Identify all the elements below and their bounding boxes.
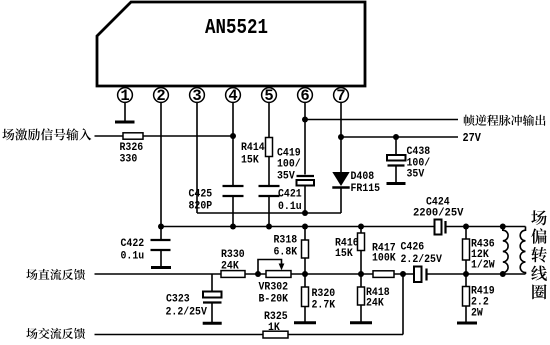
node R417/C426 (400, 271, 406, 277)
node R318/R320 (302, 271, 308, 277)
node bus R318 (302, 224, 308, 230)
wire pin7 top (340, 102, 342, 172)
wire R326 to pin4 (143, 135, 233, 137)
capacitor C425 plates (223, 185, 244, 187)
wire R416 top (360, 227, 362, 234)
pin 3 (190, 87, 205, 105)
wire pin3 down (196, 102, 198, 213)
svg-text:24K: 24K (221, 260, 239, 273)
wire AC feedback up (402, 274, 404, 335)
coil winding 2 (520, 227, 525, 275)
label field DC feedback (CJK) (26, 269, 85, 280)
wire C438 top (395, 137, 397, 155)
svg-text:R414: R414 (241, 142, 265, 155)
wire C422 top (160, 227, 162, 240)
svg-text:1K: 1K (268, 322, 281, 335)
wire R318 bot (304, 258, 306, 274)
wire pin2 down (160, 102, 162, 226)
wire AC feedback right (288, 334, 403, 336)
svg-text:100K: 100K (372, 252, 396, 265)
wire pin6 top (304, 102, 306, 174)
ground C422 (151, 266, 171, 269)
label flyback pulse output (CJK) (464, 115, 546, 126)
node bus R416 (358, 224, 364, 230)
svg-text:6.8K: 6.8K (274, 246, 298, 259)
resistor R326 (123, 133, 143, 139)
IC U1 AN5521 body (97, 2, 365, 86)
svg-text:3: 3 (192, 87, 201, 105)
wire R417-C426 (394, 273, 414, 275)
svg-text:15K: 15K (241, 154, 259, 167)
wire R418 bot (360, 305, 362, 322)
wire pin4 down (232, 102, 234, 185)
wire pin6 bot (304, 186, 306, 214)
svg-text:C426: C426 (401, 241, 425, 254)
wire R419 top (465, 274, 467, 287)
svg-text:2.2/25V: 2.2/25V (401, 254, 443, 267)
capacitor C422 plates (151, 240, 171, 250)
capacitor C323 (polarized) (203, 292, 222, 303)
resistor R419 (463, 287, 470, 307)
pin 1 (118, 87, 133, 105)
wire pin1 stub (124, 102, 126, 120)
svg-text:0.1u: 0.1u (278, 201, 302, 214)
node bus R436 (463, 224, 469, 230)
wire pin5 top (268, 102, 270, 137)
wire pin7 bot (340, 189, 342, 214)
svg-text:100/: 100/ (277, 158, 301, 171)
capacitor C421 plates (259, 185, 280, 187)
svg-text:820P: 820P (189, 200, 213, 213)
resistor R318 (302, 240, 309, 258)
ground R418 (350, 321, 372, 324)
svg-text:R318: R318 (274, 234, 298, 247)
wire R320 top (304, 274, 306, 287)
svg-text:2200/25V: 2200/25V (413, 207, 464, 219)
svg-text:4: 4 (228, 87, 237, 105)
svg-text:C425: C425 (189, 188, 213, 201)
svg-text:1/2W: 1/2W (471, 259, 495, 272)
ground C438 (387, 182, 406, 185)
node pin4 junction (230, 133, 236, 139)
wire boost rail y213 (197, 212, 341, 214)
node bus pin5 (266, 224, 272, 230)
resistor R416 (358, 233, 365, 251)
label field drive input (CJK) (2, 128, 91, 140)
capacitor C419 (polarized) (297, 176, 315, 186)
svg-text:7: 7 (336, 87, 345, 105)
svg-text:C421: C421 (278, 188, 302, 201)
VR302 wiper (258, 260, 284, 275)
pin 7 (334, 87, 349, 105)
wire R318 top (304, 227, 306, 241)
node bus pin4 (230, 224, 236, 230)
node R436/R419 (463, 271, 469, 277)
resistor R417 (373, 271, 394, 278)
wire main bus right (447, 226, 526, 228)
svg-text:2: 2 (156, 87, 165, 105)
svg-text:24K: 24K (366, 297, 384, 310)
svg-text:FR115: FR115 (351, 183, 381, 196)
svg-text:C323: C323 (166, 293, 190, 306)
wire pin4 down2 (232, 197, 234, 227)
resistor R325 (263, 331, 288, 338)
wire AC feedback left (95, 334, 264, 336)
capacitor C426 (polarized) (414, 267, 427, 283)
ground R419 (457, 322, 477, 325)
wire R320 bot (304, 307, 306, 322)
pin1 terminal bar (115, 121, 135, 124)
svg-text:15K: 15K (335, 248, 353, 261)
resistor R418 (358, 287, 365, 305)
wire R418 top (360, 274, 362, 287)
coil winding 1 (503, 227, 508, 275)
capacitor C424 (polarized) (435, 220, 446, 235)
svg-text:330: 330 (120, 153, 138, 166)
svg-text:2.7K: 2.7K (312, 299, 336, 312)
wire DC feedback left (95, 273, 222, 275)
ground C323 (203, 322, 222, 325)
pin 2 (154, 87, 169, 105)
potentiometer VR302 (266, 271, 291, 278)
label field AC feedback (CJK) (26, 328, 85, 339)
node pin6 rail (302, 210, 308, 216)
node coil bottom (500, 271, 506, 277)
wire R436 top (465, 227, 467, 240)
node 27V tap (338, 134, 344, 140)
diode D408 (332, 172, 349, 188)
wire pin5 mid (268, 157, 270, 186)
node R416/R418 (358, 271, 364, 277)
wire R416 bot (360, 251, 362, 275)
resistor R414 (266, 138, 273, 157)
pin 5 (262, 87, 277, 105)
svg-text:2.2/25V: 2.2/25V (166, 306, 208, 319)
svg-text:5: 5 (264, 87, 273, 105)
svg-text:6: 6 (300, 87, 309, 105)
node C438 tap (393, 134, 399, 140)
wire C323 top (211, 274, 213, 292)
resistor R330 (221, 271, 245, 278)
svg-text:27V: 27V (463, 132, 482, 145)
svg-text:2W: 2W (471, 307, 484, 320)
svg-text:C422: C422 (121, 238, 145, 251)
wire C323 bot (211, 304, 213, 323)
ground R320 (294, 321, 316, 324)
svg-text:35V: 35V (277, 170, 295, 183)
wire VR302-R417 (291, 273, 373, 275)
wire R436 bot (465, 260, 467, 274)
wire 27V line (341, 136, 458, 138)
wire field drive input (95, 135, 124, 137)
wire pin5 bot (268, 197, 270, 227)
capacitor C438 (polarized) (387, 155, 406, 166)
node bus coil top (500, 224, 506, 230)
wire main bus left (161, 226, 435, 228)
svg-text:1: 1 (120, 87, 129, 105)
pin 6 (298, 87, 313, 105)
label deflection coil (CJK vertical) (531, 210, 547, 299)
svg-text:VR302: VR302 (259, 281, 289, 294)
wire flyback pulse out (305, 119, 458, 121)
resistor R320 (302, 287, 309, 307)
resistor R436 (463, 239, 470, 260)
wire C426-coil (428, 273, 526, 275)
svg-text:35V: 35V (407, 168, 425, 181)
wire R330-VR302 (245, 273, 266, 275)
node VR302 left (255, 271, 261, 277)
svg-text:0.1u: 0.1u (121, 250, 145, 263)
svg-text:AN5521: AN5521 (205, 16, 268, 40)
pin 4 (226, 87, 241, 105)
svg-text:D408: D408 (351, 171, 375, 184)
wire C438 bot (395, 167, 397, 183)
svg-text:B-20K: B-20K (259, 293, 289, 306)
node bus pin2 (158, 224, 164, 230)
node flyback tap (302, 117, 308, 123)
wire R419 bot (465, 306, 467, 323)
wire C422 bot (160, 251, 162, 267)
